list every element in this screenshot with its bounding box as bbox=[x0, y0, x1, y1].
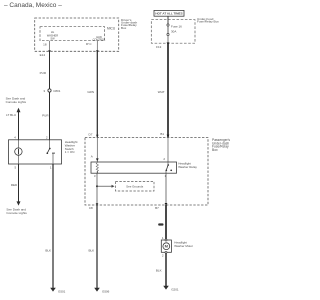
ground G501 bbox=[50, 288, 65, 294]
svg-text:D7: D7 bbox=[89, 133, 93, 137]
switch contact bbox=[46, 140, 55, 164]
wire relay pin3 to ground G506 (BLK) bbox=[89, 173, 99, 288]
node ground junction bbox=[96, 185, 98, 187]
svg-text:BLK: BLK bbox=[156, 268, 162, 272]
svg-text:Fuse 16: Fuse 16 bbox=[171, 25, 182, 29]
svg-text:IP C: IP C bbox=[86, 42, 93, 46]
svg-text:SW: SW bbox=[50, 36, 55, 40]
svg-text:A: A bbox=[91, 154, 93, 158]
box HOT AT ALL TIMES bbox=[154, 10, 184, 16]
wire HOT feed to fuse bbox=[167, 16, 169, 24]
wire arrow to see grounds bbox=[97, 185, 115, 188]
title Canada Mexico bbox=[4, 2, 62, 9]
svg-text:B7: B7 bbox=[155, 206, 159, 210]
connector C801 on wire bbox=[43, 89, 60, 93]
text see dash and console lights (bottom) bbox=[6, 207, 27, 215]
pin D7 (passenger box entry) bbox=[89, 133, 93, 137]
svg-text:WHT: WHT bbox=[158, 90, 165, 94]
svg-text:30A: 30A bbox=[171, 29, 176, 33]
box under-hood fuse/relay box (dashed) bbox=[151, 17, 219, 43]
svg-text:Box: Box bbox=[121, 26, 127, 30]
module MICU (dashed) bbox=[40, 27, 116, 42]
svg-text:HL: HL bbox=[51, 30, 55, 34]
relay switch contact bbox=[165, 162, 172, 173]
wire MICU IP C to relay coil (GRN) bbox=[87, 41, 98, 162]
wire to dash/console lights (LT BLU) with up arrow bbox=[6, 108, 20, 141]
svg-text:G201: G201 bbox=[171, 288, 179, 292]
svg-text:LT BLU: LT BLU bbox=[6, 113, 16, 117]
switch headlight washer switch bbox=[9, 136, 78, 170]
svg-text:Fuse/Relay Box: Fuse/Relay Box bbox=[197, 20, 219, 24]
wire switch pin1 to ground G501 (BLK) bbox=[45, 164, 53, 288]
svg-text:Console Lights: Console Lights bbox=[6, 100, 27, 104]
motor headlight washer motor bbox=[161, 236, 193, 258]
svg-text:Box: Box bbox=[212, 148, 218, 152]
svg-text:1 = ON: 1 = ON bbox=[65, 150, 75, 154]
svg-text:G501: G501 bbox=[58, 289, 66, 293]
wire switch pin5 to dash/console lights (RED) with down arrow bbox=[11, 164, 21, 206]
svg-text:F13: F13 bbox=[156, 45, 162, 49]
svg-text:E14: E14 bbox=[40, 53, 46, 57]
svg-text:Console Lights: Console Lights bbox=[6, 211, 27, 215]
svg-text:MICU: MICU bbox=[107, 27, 116, 31]
svg-text:PUR: PUR bbox=[40, 71, 47, 75]
ground G506 bbox=[94, 288, 109, 294]
svg-text:GRN: GRN bbox=[87, 90, 94, 94]
svg-text:Washer Relay: Washer Relay bbox=[178, 165, 197, 169]
lamp illumination bulb bbox=[15, 140, 22, 164]
box driver's under-dash fuse/relay box (dashed) bbox=[35, 18, 138, 51]
wire fuse to relay pin2 (WHT) bbox=[156, 36, 169, 163]
svg-text:HOT AT ALL TIMES: HOT AT ALL TIMES bbox=[155, 12, 182, 16]
svg-text:C8: C8 bbox=[89, 206, 93, 210]
svg-text:See Grounds: See Grounds bbox=[126, 185, 144, 189]
svg-text:PUR: PUR bbox=[42, 113, 49, 117]
svg-text:– Canada, Mexico –: – Canada, Mexico – bbox=[4, 2, 62, 9]
pin IP C (MICU) bbox=[86, 42, 93, 46]
wire motor pin2 to ground G201 (BLK) bbox=[156, 253, 166, 286]
relay coil bbox=[96, 163, 98, 174]
svg-text:G506: G506 bbox=[102, 289, 110, 293]
wire relay pin1 to motor (power) bbox=[155, 173, 167, 240]
ground G201 bbox=[163, 286, 179, 292]
fuse 16 30A bbox=[167, 24, 182, 36]
svg-text:C801: C801 bbox=[53, 89, 61, 93]
pin B1 (passenger box entry) bbox=[160, 132, 164, 136]
svg-text:RED: RED bbox=[11, 183, 18, 187]
pin 18 (MICU) bbox=[43, 43, 47, 47]
svg-text:18: 18 bbox=[43, 43, 47, 47]
svg-text:Washer Motor: Washer Motor bbox=[174, 244, 193, 248]
box see grounds (dashed) bbox=[116, 181, 155, 191]
svg-text:CONTROL: CONTROL bbox=[93, 37, 106, 41]
svg-text:B1: B1 bbox=[160, 132, 164, 136]
wire MICU pin18 to switch pin2 (PUR) bbox=[40, 41, 51, 141]
box passenger's under-dash fuse/relay box (dashed) bbox=[85, 138, 230, 206]
text see dash and console lights (top) bbox=[6, 96, 27, 104]
relay headlight washer relay bbox=[91, 154, 198, 178]
svg-text:BLK: BLK bbox=[89, 248, 95, 252]
svg-text:BLK: BLK bbox=[45, 248, 51, 252]
